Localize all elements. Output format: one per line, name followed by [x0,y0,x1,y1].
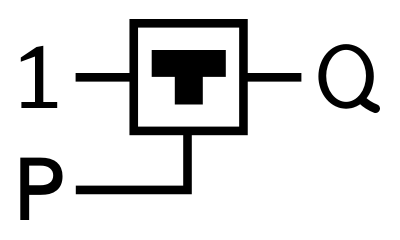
pin label 1 (left input) [21,46,57,108]
wire: input lead from pin label 1 to flip-flop box [76,73,134,82]
wire: P lead (horizontal run and vertical stub into box bottom) [76,131,188,190]
T flip-flop body U1 (square outline) [134,23,244,131]
pin label P (bottom input) [20,158,62,220]
pin label Q (right output), ring [318,44,373,109]
pin label Q, tail stroke [362,100,376,109]
wire: output lead from flip-flop box to pin label Q [244,73,302,82]
T symbol inside flip-flop [152,50,226,105]
